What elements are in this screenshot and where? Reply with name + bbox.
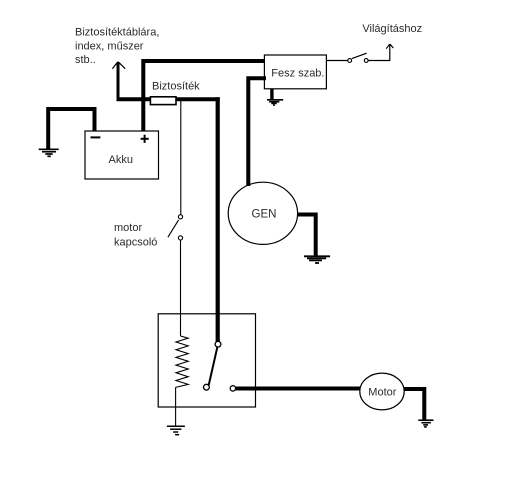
light switch blade (352, 53, 367, 58)
ground regulator (267, 100, 283, 105)
wire arrow branch to fuse board (117, 63, 120, 100)
svg-text:motor: motor (114, 222, 142, 234)
wire fuse down to relay contact (216, 97, 220, 342)
motor switch contact top (178, 215, 182, 219)
arrowhead to fuse board (112, 62, 125, 69)
relay coil resistor (176, 336, 189, 387)
wire regulator ground stub (270, 89, 273, 100)
ground relay coil (167, 426, 185, 435)
svg-text:Biztosítéktáblára,: Biztosítéktáblára, (75, 27, 159, 39)
wire regulator to generator (248, 78, 266, 186)
relay contact right (230, 386, 235, 391)
motor switch contact bottom (178, 236, 182, 240)
svg-text:stb..: stb.. (75, 54, 96, 66)
relay box K1 (158, 314, 255, 407)
regulator Fesz szab. box (264, 55, 326, 89)
label motor kapcsolo (114, 222, 157, 249)
svg-text:kapcsoló: kapcsoló (114, 237, 157, 249)
wire motor to ground (404, 389, 424, 420)
svg-text:Motor: Motor (368, 387, 396, 399)
svg-text:Világításhoz: Világításhoz (362, 23, 422, 35)
battery Akku box (85, 131, 159, 179)
wire generator to ground (297, 215, 316, 256)
relay blade (209, 347, 218, 385)
wire regulator to light switch (326, 60, 348, 62)
motor M circle (360, 373, 404, 410)
ground generator (304, 256, 330, 263)
svg-text:Akku: Akku (109, 154, 133, 166)
wire battery minus to ground (48, 109, 94, 149)
ground battery (39, 149, 59, 156)
wire light switch to lighting arrow (368, 44, 390, 61)
ground motor (418, 420, 433, 427)
wire relay to motor (236, 387, 361, 391)
light switch contact right (364, 59, 368, 63)
wire fuse run left (117, 97, 151, 101)
light switch contact left (348, 59, 352, 63)
wire fuse to motor switch (180, 101, 182, 215)
wire coil to ground (175, 387, 177, 426)
battery plus label (141, 135, 149, 143)
svg-text:index, műszer: index, műszer (75, 41, 144, 53)
svg-text:GEN: GEN (252, 209, 277, 221)
arrowhead to lighting (386, 44, 393, 49)
relay contact pivot (215, 341, 221, 347)
wire motor switch to relay coil (180, 240, 182, 336)
wire battery plus up and right to regulator (143, 61, 264, 132)
generator GEN circle (228, 182, 297, 244)
svg-text:Biztosíték: Biztosíték (152, 81, 200, 93)
battery minus label (91, 136, 101, 138)
wire fuse run right (176, 97, 220, 101)
svg-text:Fesz szab.: Fesz szab. (271, 67, 324, 79)
motor switch blade (168, 220, 179, 237)
label Biztositektablara index muszer stb (75, 27, 159, 67)
relay contact left (204, 384, 210, 390)
fuse F1 (150, 97, 176, 105)
